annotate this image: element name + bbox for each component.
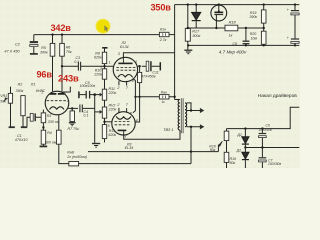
junction (191,126.8) bbox=[190, 126, 192, 128]
svg-text:1: 1 bbox=[109, 61, 111, 65]
svg-text:1к: 1к bbox=[229, 33, 233, 37]
wire R10 to R11 bbox=[104, 79, 106, 89]
svg-text:ТВЗ 1: ТВЗ 1 bbox=[163, 128, 173, 132]
resistor R8 bbox=[102, 52, 106, 63]
wire C8 leads bbox=[245, 28, 247, 45]
resistor R2 bbox=[21, 96, 25, 116]
svg-text:0.1: 0.1 bbox=[74, 60, 79, 64]
svg-text:300к: 300к bbox=[192, 34, 200, 38]
resistor R3 bbox=[41, 113, 46, 123]
junction (218.8,11.2) bbox=[218, 10, 220, 12]
svg-text:R2: R2 bbox=[18, 83, 23, 87]
junction (218.8,4.6) bbox=[218, 3, 220, 5]
wire diode top leads bbox=[195, 5, 197, 28]
capacitor C3 bbox=[78, 62, 80, 71]
svg-text:2х (по50ом): 2х (по50ом) bbox=[66, 155, 87, 159]
diode D2 bbox=[242, 152, 249, 159]
wire L3 pin4 up bbox=[135, 97, 139, 122]
wire L1 pin6 hook bbox=[63, 87, 70, 92]
junction (174.6,96.8) bbox=[173, 96, 175, 98]
svg-text:4: 4 bbox=[136, 118, 138, 122]
wire mosfet source lead bbox=[215, 15, 217, 28]
wire C2 leads bbox=[33, 35, 35, 54]
svg-text:R4: R4 bbox=[47, 131, 52, 135]
svg-text:3: 3 bbox=[124, 135, 126, 139]
wire vertical 350v drop to transformer top bbox=[175, 5, 180, 100]
svg-text:R20: R20 bbox=[250, 32, 257, 36]
junction (187.8,4.6) bbox=[187, 3, 189, 5]
wire R4 to ground bar bbox=[42, 144, 44, 146]
junction (191,151.6) bbox=[190, 150, 192, 152]
junction (139.6,66.2) bbox=[138, 65, 140, 67]
wire L3 anode to transformer bottom bbox=[124, 130, 180, 139]
junction (262.4,128.6) bbox=[261, 127, 263, 129]
wire secondary output arrows shafts bbox=[187, 111, 201, 127]
junction (263.7,45.4) bbox=[263, 44, 265, 46]
tube L1 grid dashes bbox=[47, 100, 66, 102]
svg-text:330 ом: 330 ом bbox=[48, 120, 60, 124]
capacitor C9 electrolytic bbox=[291, 10, 299, 12]
resistor RV2 trimmer bbox=[102, 107, 106, 118]
resistor R13 bbox=[102, 125, 106, 139]
junction (263.7,4.6) bbox=[263, 3, 265, 5]
transformer secondary winding bbox=[185, 103, 187, 127]
resistor R6 bbox=[60, 43, 65, 56]
wire C1 branch bbox=[27, 117, 41, 126]
svg-text:47 X 450: 47 X 450 bbox=[4, 49, 20, 53]
potentiometer VR1 bbox=[8, 93, 12, 103]
ground bar R4 bbox=[40, 145, 48, 147]
svg-text:10м: 10м bbox=[251, 37, 258, 41]
wire R13 to ground bbox=[104, 139, 106, 143]
wire L2 pin4 node to C11 bbox=[138, 66, 140, 97]
wire L3 heater stubs bbox=[119, 108, 127, 113]
svg-text:500 ом: 500 ом bbox=[45, 141, 57, 145]
tube L1 anode bars bbox=[50, 93, 65, 95]
junction (188.3,45.4) bbox=[187, 44, 189, 46]
svg-text:VR1: VR1 bbox=[0, 94, 7, 98]
arrow head output bottom bbox=[200, 124, 204, 129]
capacitor C8 bbox=[243, 40, 250, 42]
resistor R19 bbox=[261, 10, 266, 23]
svg-text:96в: 96в bbox=[37, 69, 53, 79]
wire C4 branch bbox=[68, 107, 95, 109]
capacitor C11 electrolytic bbox=[146, 61, 149, 71]
wire wiper arrow RV2 bbox=[95, 111, 101, 113]
junction (245.4,128.6) bbox=[244, 127, 246, 129]
tube L3 anode bar bbox=[118, 129, 127, 131]
junction (43.4,127.5) bbox=[42, 126, 44, 128]
junction (245.9,28) bbox=[245, 27, 247, 29]
svg-text:620к: 620к bbox=[94, 55, 102, 59]
wire C7 leads bbox=[261, 148, 263, 169]
junction (263.7,28) bbox=[263, 27, 265, 29]
svg-text:5: 5 bbox=[108, 124, 110, 128]
resistor R17 bbox=[185, 28, 190, 41]
wire R3 R4 junction bbox=[42, 123, 44, 131]
wire C5 line with terminal bbox=[80, 94, 95, 96]
resistor R5 bbox=[50, 43, 55, 56]
wire C3 coupling to grid L2 bbox=[62, 65, 113, 67]
svg-text:75к: 75к bbox=[66, 50, 72, 54]
tube L3 cathode arcs top bbox=[116, 116, 131, 119]
potentiometer R10 50k upper half bbox=[224, 131, 229, 141]
svg-text:Накал драйверов: Накал драйверов bbox=[258, 92, 297, 99]
svg-text:243в: 243в bbox=[58, 73, 79, 84]
tube L2 EL34 envelope bbox=[113, 57, 137, 81]
tube L3 EL34 envelope flipped bbox=[112, 112, 135, 135]
arrow head wiper RV2 bbox=[100, 110, 103, 114]
svg-text:47Х450в: 47Х450в bbox=[141, 75, 155, 79]
wire bias node vertical to ground bbox=[94, 95, 96, 143]
svg-text:390к: 390к bbox=[16, 89, 24, 93]
svg-text:8: 8 bbox=[130, 111, 132, 115]
wire R19 leads bbox=[263, 5, 265, 28]
junction (295,45.4) bbox=[294, 44, 296, 46]
ground bar R2 C1 bbox=[21, 126, 27, 128]
wire secondary bottom tap vertical bbox=[190, 127, 192, 164]
wire L3 pin8 up bbox=[133, 97, 136, 113]
capacitor C1 electrolytic bbox=[30, 113, 33, 121]
capacitor C5 bbox=[86, 91, 89, 99]
resistor R15 2.7k in 342v rail bbox=[159, 32, 169, 36]
svg-text:4.7 Мкр 400v: 4.7 Мкр 400v bbox=[219, 49, 247, 54]
tube L1 cathode arcs bbox=[50, 107, 65, 110]
ground below R17 and mid rail bbox=[184, 49, 192, 51]
resistor Rn load bbox=[69, 162, 79, 166]
wire L2 pin8 down bbox=[133, 79, 135, 97]
arrow head feedback pot wiper bbox=[218, 141, 222, 147]
svg-text:100Х50в: 100Х50в bbox=[268, 162, 281, 166]
wire R6 column bbox=[61, 35, 63, 93]
svg-text:4: 4 bbox=[135, 60, 137, 64]
svg-text:220к: 220к bbox=[93, 73, 102, 77]
svg-text:Rн8: Rн8 bbox=[67, 150, 74, 154]
svg-text:350в: 350в bbox=[151, 3, 172, 13]
svg-text:300к: 300к bbox=[40, 50, 48, 54]
resistor anode stopper R12 bbox=[138, 72, 142, 82]
svg-text:50к: 50к bbox=[210, 148, 216, 152]
capacitor C6 electrolytic bbox=[259, 133, 267, 135]
wire L1 cathode2 column bbox=[59, 115, 191, 164]
resistor R18 bbox=[225, 25, 238, 31]
svg-text:EL34: EL34 bbox=[125, 146, 134, 150]
wire heater rail lower bbox=[245, 147, 299, 149]
svg-text:Д2: Д2 bbox=[236, 148, 242, 152]
svg-text:3: 3 bbox=[118, 52, 120, 56]
diode D1 bbox=[242, 137, 249, 144]
resistor cathode2 Rk bbox=[57, 130, 62, 144]
svg-text:Д1: Д1 bbox=[236, 133, 242, 137]
tube L2 anode bar bbox=[118, 62, 132, 64]
junction (62,34.6) bbox=[61, 33, 63, 35]
junction (52.5,34.6) bbox=[51, 33, 53, 35]
wire RV2 to R13 bbox=[104, 118, 106, 124]
wire L3 grid bbox=[105, 121, 113, 123]
transformer core lines bbox=[181, 98, 183, 133]
svg-text:620к: 620к bbox=[108, 133, 116, 137]
svg-text:342в: 342в bbox=[51, 23, 72, 33]
svg-text:5: 5 bbox=[100, 65, 102, 69]
wire heater chain column bbox=[226, 129, 228, 168]
svg-text:R18: R18 bbox=[229, 20, 237, 24]
ground bar VR1 bbox=[9, 126, 15, 128]
svg-text:100Х50в: 100Х50в bbox=[259, 128, 272, 132]
junction (196.2,4.6) bbox=[195, 3, 197, 5]
wire R5 column bbox=[52, 35, 54, 92]
junction (94.7,94.6) bbox=[93, 93, 96, 96]
resistor R7 bbox=[70, 111, 75, 122]
svg-text:R17: R17 bbox=[192, 30, 200, 34]
fuse resistor Ran 1k bbox=[159, 95, 169, 99]
svg-text:1к: 1к bbox=[161, 100, 165, 104]
wire feedback line to pot wiper bbox=[88, 145, 218, 152]
svg-text:Rан: Rан bbox=[161, 90, 167, 94]
svg-text:220к: 220к bbox=[108, 107, 117, 111]
mouse pointer bbox=[104, 25, 108, 32]
junction (262.4,147.5) bbox=[261, 146, 263, 148]
mosfet gate bars bbox=[214, 11, 223, 13]
wire R11 to RV2 bbox=[104, 100, 106, 107]
junction (104.5,66.2) bbox=[103, 65, 105, 67]
svg-text:R1в: R1в bbox=[160, 27, 166, 31]
wire link between cathode and anode columns bbox=[135, 96, 140, 98]
ground below R7 bbox=[69, 122, 76, 124]
tube L3 grid dashes bbox=[115, 121, 130, 124]
arrow head VR1 wiper bbox=[5, 97, 9, 100]
background grid bbox=[0, 0, 300, 168]
wire C9 C10 column bbox=[294, 5, 296, 46]
junction (187.8,28) bbox=[187, 27, 189, 29]
junction (62,66.2) bbox=[61, 65, 63, 67]
wire wiper arrow R11 bbox=[95, 94, 101, 96]
svg-text:С8: С8 bbox=[232, 42, 237, 46]
junction (216.4,28) bbox=[215, 27, 217, 29]
resistor R10 bbox=[102, 69, 106, 79]
svg-text:50к: 50к bbox=[0, 100, 6, 104]
junction (245.9,45.4) bbox=[245, 44, 247, 46]
wire L1 cathode1 to R3 bbox=[42, 110, 44, 113]
junction (245.4,147.5) bbox=[244, 146, 246, 148]
svg-text:R3: R3 bbox=[47, 114, 52, 118]
resistor R4 bbox=[41, 130, 46, 144]
wire diode D2 leads bbox=[244, 148, 246, 169]
mosfet V1 envelope bbox=[211, 5, 227, 21]
yellow cursor highlight bbox=[96, 19, 111, 34]
svg-text:С6: С6 bbox=[266, 123, 270, 127]
wire R8 to R10 bbox=[104, 64, 106, 69]
wire R8 top lead and terminal bar bbox=[104, 48, 106, 52]
wire R20 leads bbox=[263, 28, 265, 45]
tube L1 6N8S envelope bbox=[45, 91, 69, 115]
capacitor C10 electrolytic bbox=[291, 38, 299, 40]
junction (72.2,108.4) bbox=[71, 107, 73, 109]
wire 342v rail right segment to vertical bbox=[169, 34, 175, 36]
svg-text:470X10: 470X10 bbox=[15, 138, 29, 142]
junction (135.4,96.8) bbox=[134, 96, 136, 98]
svg-text:EL34: EL34 bbox=[120, 45, 129, 49]
wire secondary top tap hook bbox=[187, 103, 191, 111]
resistor R11 trimmer bbox=[102, 89, 106, 100]
svg-text:2.7к: 2.7к bbox=[159, 38, 167, 42]
ground bar bias chain bbox=[92, 143, 100, 145]
svg-text:2: 2 bbox=[41, 90, 44, 94]
wire ground mid rail bbox=[188, 44, 299, 46]
resistor R16 lower bbox=[224, 152, 229, 162]
svg-text:50к: 50к bbox=[230, 161, 236, 165]
wire diode D1 leads bbox=[244, 129, 246, 148]
wire R7 to ground bbox=[71, 108, 73, 122]
wire mosfet drain lead bbox=[218, 5, 220, 12]
transformer TVZ1 primary winding bbox=[178, 100, 180, 131]
svg-text:4: 4 bbox=[67, 99, 69, 103]
arrow head wiper R11 bbox=[100, 93, 103, 97]
svg-text:Л1: Л1 bbox=[30, 83, 36, 87]
svg-text:6: 6 bbox=[64, 92, 66, 96]
svg-text:220к: 220к bbox=[108, 91, 117, 95]
wire heater rail top with step bbox=[227, 107, 300, 128]
arrow head output top bbox=[200, 108, 204, 113]
wire gate line y28 bbox=[188, 27, 264, 29]
wire R17 column bbox=[187, 5, 189, 50]
junction (295,4.6) bbox=[294, 3, 296, 5]
wire R2 to ground bbox=[22, 116, 24, 127]
wire VR1 leads bbox=[10, 87, 12, 127]
junction (104.5,121.8) bbox=[103, 121, 105, 123]
junction (191,110.5) bbox=[190, 109, 192, 111]
tube L2 grid dashes bbox=[116, 68, 135, 71]
wire fuse line to transformer bbox=[140, 96, 174, 98]
tube L2 cathode arcs bbox=[118, 75, 133, 78]
svg-text:100в/100в: 100в/100в bbox=[80, 84, 96, 88]
svg-text:8: 8 bbox=[132, 79, 134, 83]
wire L2 heater stubs bbox=[119, 81, 127, 86]
svg-text:0.1: 0.1 bbox=[83, 114, 88, 118]
wire C11 series bbox=[142, 65, 160, 67]
capacitor C7 electrolytic bbox=[259, 157, 267, 159]
wire C6 leads bbox=[261, 129, 263, 148]
svg-text:2: 2 bbox=[116, 86, 119, 90]
junction (139.6,96.8) bbox=[139, 96, 141, 98]
svg-text:2: 2 bbox=[116, 103, 119, 107]
svg-text:390к: 390к bbox=[249, 15, 257, 19]
svg-text:R7 75к: R7 75к bbox=[68, 127, 80, 131]
capacitor C2 electrolytic bbox=[30, 41, 38, 43]
diode rail detector bbox=[192, 12, 201, 20]
wire 342v rail left bbox=[34, 34, 160, 36]
wire anode of L2 to vertical bbox=[123, 53, 174, 59]
capacitor C4 bbox=[80, 105, 82, 113]
resistor R20 bbox=[261, 31, 266, 44]
wire 350v top rail bbox=[175, 4, 300, 6]
